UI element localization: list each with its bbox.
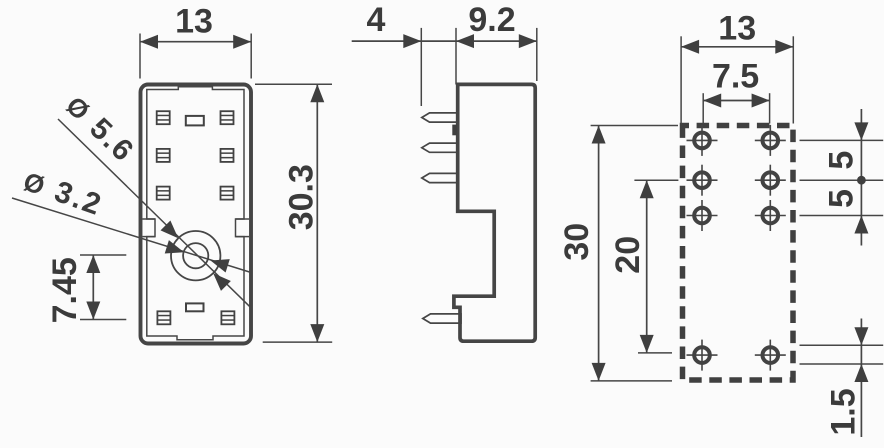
side view pin 1 [422,113,458,122]
svg-text:5: 5 [823,189,861,208]
dim 5 lower [800,176,884,234]
left notch stubs [143,219,156,237]
svg-text:7.45: 7.45 [46,257,84,323]
socket pad row3 left [157,187,170,200]
dim 4 [352,1,537,106]
socket pad row1 left [157,111,170,124]
hole r1c2 [755,125,786,156]
top center slot [186,116,204,126]
dim 9.2 [456,1,537,85]
label dia 5.6 [60,89,141,169]
dim 7.5 [703,58,769,124]
svg-text:20: 20 [609,236,647,274]
right notch stubs [236,219,250,237]
dim 30 [558,126,678,381]
svg-text:30.3: 30.3 [283,164,321,230]
dim 20 [609,180,678,353]
socket pad row4 left [157,311,170,324]
top view inner outline [147,87,244,340]
top view outer body [141,85,252,344]
dim 13 drilling [681,9,793,123]
socket pad row2 right [221,149,234,162]
drilling plan dashed outline [683,126,794,381]
svg-text:30: 30 [558,223,596,261]
socket pad row2 left [157,149,170,162]
center hole inner circle [183,243,208,268]
side view pin 4 [423,314,461,323]
hole r3c1 [687,200,718,231]
svg-text:5: 5 [823,151,861,170]
side view latch mark [452,125,457,136]
socket pad row3 right [221,187,234,200]
dim 30.3 [255,84,332,342]
hole r2c1 [687,165,718,196]
side view pin 3 [422,173,458,182]
dim 1.5 [800,319,884,438]
dim 13 top view [140,3,251,79]
socket pad row1 right [221,111,234,124]
hole r2c2 [755,165,786,196]
hole r3c2 [755,200,786,231]
hole r4c1 [687,340,718,371]
svg-text:9.2: 9.2 [468,1,515,39]
svg-text:1.5: 1.5 [825,388,863,435]
center hole outer circle [171,231,220,280]
socket pad row4 right [221,311,234,324]
svg-text:4: 4 [367,1,386,39]
hole r4c2 [755,340,786,371]
svg-text:13: 13 [175,3,213,41]
side view pin 2 [422,143,458,152]
svg-text:13: 13 [718,9,756,47]
leader line dia 3.2 [12,198,250,273]
leader line dia 5.6 [58,119,251,307]
side view body [454,84,535,341]
dim 7.45 [46,255,126,323]
bottom center slot [186,303,204,311]
hole r1c1 [687,125,718,156]
label dia 3.2 [19,164,107,222]
dim 5 upper [800,109,884,246]
svg-text:7.5: 7.5 [712,58,759,96]
